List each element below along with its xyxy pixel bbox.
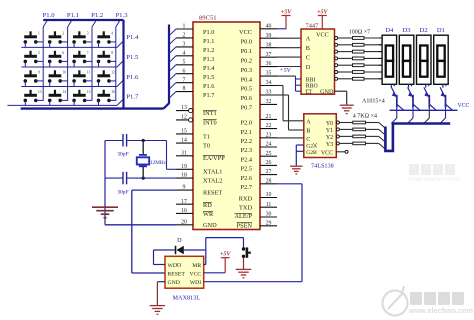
svg-text:P0.0: P0.0 bbox=[241, 38, 252, 45]
wire S14 right contact to column P1.1 bbox=[60, 99, 67, 101]
display D2 body bbox=[417, 35, 432, 84]
svg-text:P0.5: P0.5 bbox=[241, 86, 252, 93]
bubble output 6 (7447) bbox=[335, 77, 338, 80]
diode D bbox=[176, 246, 183, 254]
pin 14 (T0) stub left bbox=[176, 142, 193, 144]
resistor R10 4.7K bbox=[353, 135, 366, 138]
keypad pushbutton S15 bbox=[72, 90, 90, 102]
pin 6 (P1.5) stub left bbox=[176, 73, 193, 75]
bus entry slant R9 bbox=[379, 129, 385, 135]
display D4 digit segments bbox=[386, 46, 393, 77]
bus slant to pin 7 bbox=[169, 83, 176, 90]
svg-text:XTAL2: XTAL2 bbox=[203, 177, 222, 184]
svg-text:33: 33 bbox=[266, 90, 272, 96]
bus P1 vertical at MCU bbox=[168, 25, 170, 104]
svg-text:4: 4 bbox=[111, 32, 113, 36]
bus P1 bottom segment bbox=[21, 107, 164, 109]
resistor R3 100ohm bbox=[353, 50, 365, 53]
bus slant to pin 5 bbox=[169, 65, 176, 72]
svg-text:3: 3 bbox=[87, 32, 89, 36]
svg-text:P0.2: P0.2 bbox=[241, 57, 252, 64]
display D4 segment pin bbox=[379, 51, 383, 53]
svg-text:D2: D2 bbox=[420, 27, 428, 34]
pin 34 (P0.5) stub right bbox=[260, 85, 277, 87]
svg-text:22: 22 bbox=[266, 123, 272, 129]
svg-text:P1.5: P1.5 bbox=[203, 74, 214, 81]
wire G2A G2B to ground bbox=[296, 144, 304, 146]
pin 30 (ALE/P) stub right bbox=[260, 216, 277, 218]
wire S12 right contact to column P1.3 bbox=[109, 80, 116, 82]
svg-text:VCC: VCC bbox=[239, 29, 252, 36]
display D4 body bbox=[382, 35, 397, 84]
svg-text:30: 30 bbox=[266, 212, 272, 218]
svg-text:74LS138: 74LS138 bbox=[311, 163, 334, 170]
display D4 segment pin bbox=[379, 37, 383, 39]
svg-text:26: 26 bbox=[266, 160, 272, 166]
bus entry slant for column P1.1 bbox=[68, 20, 72, 27]
wire P0.6 to 74LS138 B bbox=[277, 94, 289, 96]
pin 17 (RD) stub left bbox=[176, 203, 193, 205]
wire button to ground bbox=[243, 258, 245, 269]
wire S7 right contact to column P1.2 bbox=[85, 60, 92, 62]
svg-text:2: 2 bbox=[183, 33, 186, 39]
svg-text:25: 25 bbox=[266, 151, 272, 157]
bubble output Y0 bbox=[336, 121, 339, 124]
svg-text:C: C bbox=[306, 55, 310, 62]
svg-text:+5V: +5V bbox=[281, 9, 292, 15]
display D2 digit segments bbox=[420, 46, 427, 77]
transistor Q3 A1015 bbox=[424, 87, 436, 110]
wire S4 right contact to column P1.3 bbox=[109, 41, 116, 43]
wire S2 left contact to row P1.4 bbox=[49, 42, 51, 48]
keypad pushbutton S12 bbox=[97, 70, 115, 82]
svg-text:13: 13 bbox=[38, 90, 42, 94]
svg-text:14: 14 bbox=[62, 90, 66, 94]
bus entry slant for row P1.7 bbox=[117, 99, 124, 106]
svg-text:VCC: VCC bbox=[316, 32, 329, 39]
bubble output 5 (7447) bbox=[335, 71, 338, 74]
svg-text:P1.7: P1.7 bbox=[126, 94, 139, 101]
keypad pushbutton S13 bbox=[24, 90, 42, 102]
bus P1 top segment bbox=[43, 19, 123, 21]
bubble output Y2 bbox=[336, 135, 339, 138]
bus P1 right vertical segment bbox=[122, 20, 124, 109]
svg-text:8: 8 bbox=[111, 51, 113, 55]
svg-text:P2.0: P2.0 bbox=[241, 120, 252, 127]
capacitor C1 30pF bbox=[122, 134, 124, 147]
keypad pushbutton S2 bbox=[48, 31, 65, 43]
wire GND pin20 to ground bbox=[105, 224, 176, 226]
decoder U2 7447 body bbox=[301, 29, 335, 94]
wire 74LS138 Y3 to resistor bbox=[340, 142, 353, 144]
svg-text:P1.0: P1.0 bbox=[43, 12, 56, 19]
bus entry slant for column P1.3 bbox=[116, 20, 120, 27]
wire resistor R9 to bus bbox=[366, 128, 379, 130]
wire keypad row P1.7 horizontal bbox=[7, 104, 117, 106]
svg-text:+5V: +5V bbox=[317, 9, 328, 15]
wire diode node up to reset button bbox=[205, 238, 207, 250]
svg-text:36: 36 bbox=[266, 61, 272, 67]
svg-text:39: 39 bbox=[266, 33, 272, 39]
display D4 segment pin bbox=[379, 44, 383, 46]
bus slant to pin 6 bbox=[169, 74, 176, 81]
wire S6 right contact to column P1.1 bbox=[60, 60, 67, 62]
svg-text:30pF: 30pF bbox=[117, 190, 129, 196]
svg-text:B: B bbox=[306, 128, 310, 135]
keypad pushbutton S10 bbox=[48, 70, 66, 82]
resistor R6 100ohm bbox=[353, 71, 365, 74]
pin 40 (VCC) stub right bbox=[260, 28, 277, 30]
wire resistor R8 to bus bbox=[366, 122, 379, 124]
keypad pushbutton S6 bbox=[48, 51, 65, 63]
svg-text:P1.6: P1.6 bbox=[126, 74, 139, 81]
bus slant to pin 2 bbox=[169, 38, 176, 45]
svg-text:P1.4: P1.4 bbox=[203, 65, 215, 72]
pin 24 (P2.3) stub right bbox=[260, 146, 277, 148]
keypad pushbutton S11 bbox=[72, 70, 90, 82]
svg-text:1: 1 bbox=[38, 32, 40, 36]
svg-text:P1.0: P1.0 bbox=[203, 29, 214, 36]
svg-text:18: 18 bbox=[181, 173, 187, 179]
display D3 bottom pin bbox=[408, 84, 410, 87]
svg-text:ALE/P: ALE/P bbox=[235, 213, 253, 220]
svg-text:1: 1 bbox=[183, 24, 186, 30]
svg-text:7: 7 bbox=[87, 51, 89, 55]
pin 29 (PSEN) stub right bbox=[260, 225, 277, 227]
wire S5 left contact to row P1.5 bbox=[24, 61, 26, 67]
wire keypad row P1.6 horizontal bbox=[21, 86, 117, 88]
transistor Q2 A1015 bbox=[408, 87, 420, 110]
display D4 segment pin bbox=[379, 71, 383, 73]
svg-text:28: 28 bbox=[266, 178, 272, 184]
svg-text:13: 13 bbox=[181, 105, 187, 111]
svg-text:Y2: Y2 bbox=[326, 135, 333, 141]
svg-text:A: A bbox=[306, 36, 311, 43]
svg-text:www.elecfans.com: www.elecfans.com bbox=[408, 306, 473, 315]
wire 74LS138 Y1 to resistor bbox=[340, 128, 353, 130]
pin 2 (P1.1) stub left bbox=[176, 37, 193, 39]
wire P0.3 to 7447 D bbox=[277, 66, 301, 68]
svg-text:D1: D1 bbox=[437, 27, 445, 34]
wire resistor R1 to display bbox=[364, 37, 382, 39]
display D3 body bbox=[399, 35, 414, 84]
wire GND (MAX) to ground bbox=[157, 281, 165, 283]
svg-text:2: 2 bbox=[62, 32, 64, 36]
bus entry slant R11 bbox=[379, 143, 385, 149]
wire S11 left contact to row P1.6 bbox=[73, 81, 75, 87]
svg-text:MAX813L: MAX813L bbox=[173, 295, 201, 302]
wire S4 left contact to row P1.4 bbox=[98, 42, 100, 48]
wire S7 left contact to row P1.5 bbox=[73, 61, 75, 67]
svg-text:P1.7: P1.7 bbox=[203, 92, 214, 99]
svg-text:+5V: +5V bbox=[220, 252, 231, 258]
svg-text:P1.1: P1.1 bbox=[67, 12, 79, 19]
svg-text:P1.6: P1.6 bbox=[203, 83, 214, 90]
junction crystal top bbox=[142, 139, 145, 142]
wire keypad row P1.4 horizontal bbox=[21, 46, 117, 48]
svg-text:15: 15 bbox=[181, 129, 187, 135]
wire resistor R4 to display bbox=[364, 57, 382, 59]
pin 37 (P0.2) stub right bbox=[260, 56, 277, 58]
wire P0.4 to 7447 RBI/RBO/LT bbox=[277, 75, 296, 77]
svg-text:5: 5 bbox=[38, 51, 40, 55]
keypad pushbutton S8 bbox=[97, 51, 114, 63]
svg-text:P2.5: P2.5 bbox=[241, 166, 252, 173]
wire VCC pin40 to +5V bbox=[277, 28, 286, 30]
keypad pushbutton S4 bbox=[97, 31, 114, 43]
bus slant to pin 4 bbox=[169, 56, 176, 63]
resistor R2 100ohm bbox=[353, 43, 365, 46]
svg-text:T0: T0 bbox=[203, 143, 210, 150]
svg-text:RXD: RXD bbox=[239, 196, 253, 203]
pin 36 (P0.3) stub right bbox=[260, 66, 277, 68]
bubble on pin 12 bbox=[189, 118, 193, 122]
svg-text:11: 11 bbox=[87, 71, 91, 75]
wire S6 left contact to row P1.5 bbox=[49, 61, 51, 67]
watermark logo and text bbox=[383, 286, 474, 316]
svg-text:12MHz: 12MHz bbox=[150, 160, 167, 166]
pin 26 (P2.5) stub right bbox=[260, 164, 277, 166]
pin 25 (P2.4) stub right bbox=[260, 155, 277, 157]
wire S9 right contact to column P1.0 bbox=[36, 80, 43, 82]
svg-text:17: 17 bbox=[181, 199, 187, 205]
pin 39 (P0.0) stub right bbox=[260, 37, 277, 39]
svg-text:A: A bbox=[306, 118, 311, 125]
svg-text:4 7KΩ ×4: 4 7KΩ ×4 bbox=[353, 114, 377, 120]
pin 15 (T1) stub left bbox=[176, 133, 193, 135]
wire 7447 output 5 to resistor bbox=[338, 71, 353, 73]
bubble output 4 (7447) bbox=[335, 64, 338, 67]
wire keypad column P1.2 vertical bbox=[91, 27, 93, 101]
wire WDO to diode bbox=[154, 264, 166, 266]
wire S15 left contact to row P1.7 bbox=[73, 100, 75, 105]
wire S13 left contact to row P1.7 bbox=[24, 100, 26, 105]
svg-text:P0.1: P0.1 bbox=[241, 48, 252, 55]
svg-text:34: 34 bbox=[266, 80, 272, 86]
wire S3 right contact to column P1.2 bbox=[85, 41, 92, 43]
wire S5 right contact to column P1.0 bbox=[36, 60, 43, 62]
wire S11 right contact to column P1.2 bbox=[85, 80, 92, 82]
bus entry slant for column P1.2 bbox=[92, 20, 96, 27]
wire 74LS138 Y2 to resistor bbox=[340, 135, 353, 137]
svg-text:LT: LT bbox=[306, 90, 313, 96]
pin 16 (WR) stub left bbox=[176, 212, 193, 214]
pin 13 (INT1) stub left bbox=[176, 110, 193, 112]
svg-text:P2.2: P2.2 bbox=[241, 138, 252, 145]
power +5V symbol (MAX) bbox=[221, 257, 230, 259]
pin 38 (P0.1) stub right bbox=[260, 47, 277, 49]
wire C2 left to ground rail bbox=[105, 177, 123, 179]
pin 10 (RXD) stub right bbox=[260, 197, 277, 199]
bus entry slant for row P1.6 bbox=[117, 80, 124, 87]
ground (reset button) bbox=[236, 268, 252, 270]
svg-text:C: C bbox=[306, 136, 310, 143]
pin 32 (P0.7) stub right bbox=[260, 103, 277, 105]
keypad pushbutton S9 bbox=[24, 70, 41, 82]
svg-text:P2.3: P2.3 bbox=[241, 147, 252, 154]
wire keypad column P1.3 vertical bbox=[115, 27, 117, 101]
resistor R11 4.7K bbox=[353, 142, 366, 145]
transistor Q1 A1015 bbox=[391, 87, 403, 110]
svg-text:23: 23 bbox=[266, 132, 272, 138]
bus entry slant for column P1.0 bbox=[43, 20, 47, 27]
wire S9 left contact to row P1.6 bbox=[24, 81, 26, 87]
svg-text:VCC: VCC bbox=[189, 271, 201, 277]
svg-text:89C51: 89C51 bbox=[199, 15, 217, 22]
supervisor U4 MAX813L body bbox=[165, 256, 204, 288]
wire RESET to MAX813L bbox=[132, 189, 176, 191]
svg-text:P2.1: P2.1 bbox=[241, 129, 252, 136]
svg-text:11: 11 bbox=[266, 202, 272, 208]
pin 33 (P0.6) stub right bbox=[260, 94, 277, 96]
svg-text:P1.2: P1.2 bbox=[91, 12, 103, 19]
wire S16 right contact to column P1.3 bbox=[109, 99, 116, 101]
display D1 digit segments bbox=[437, 46, 444, 77]
svg-text:D: D bbox=[306, 64, 311, 71]
display D1 body bbox=[434, 35, 449, 84]
svg-text:29: 29 bbox=[266, 220, 272, 226]
op-amp U1 89C51 microcontroller body bbox=[193, 22, 260, 230]
svg-text:D4: D4 bbox=[385, 27, 394, 34]
wire P0.5 to 74LS138 A bbox=[277, 85, 283, 87]
wire S14 left contact to row P1.7 bbox=[49, 100, 51, 105]
bus entry slant R8 bbox=[379, 123, 385, 129]
svg-text:24: 24 bbox=[266, 142, 272, 148]
wire S10 right contact to column P1.1 bbox=[60, 80, 67, 82]
svg-text:100Ω ×7: 100Ω ×7 bbox=[349, 30, 370, 36]
svg-text:12: 12 bbox=[111, 71, 115, 75]
svg-text:Y1: Y1 bbox=[326, 128, 333, 134]
svg-text:WDO: WDO bbox=[168, 263, 182, 269]
svg-text:+5V: +5V bbox=[280, 68, 292, 74]
wire S1 left contact to row P1.4 bbox=[24, 42, 26, 48]
bus slant to pin 8 bbox=[169, 92, 176, 99]
wire 7447 output 6 to resistor bbox=[338, 78, 353, 80]
svg-text:P1.4: P1.4 bbox=[126, 34, 139, 41]
pin 27 (P2.6) stub right bbox=[260, 174, 277, 176]
display D4 segment pin bbox=[379, 64, 383, 66]
svg-text:38: 38 bbox=[266, 42, 272, 48]
wire resistor R3 to display bbox=[364, 51, 382, 53]
svg-text:D: D bbox=[177, 237, 182, 244]
svg-text:www.elecfans.com: www.elecfans.com bbox=[408, 176, 460, 183]
power +5V symbol (MCU) bbox=[282, 15, 291, 17]
svg-text:WR: WR bbox=[203, 211, 214, 218]
keypad pushbutton S3 bbox=[72, 31, 89, 43]
bubble output Y1 bbox=[336, 128, 339, 131]
display D4 segment pin bbox=[379, 57, 383, 59]
svg-text:6: 6 bbox=[62, 51, 64, 55]
keypad pushbutton S5 bbox=[24, 51, 41, 63]
svg-text:10: 10 bbox=[266, 192, 272, 198]
wire S16 left contact to row P1.7 bbox=[98, 100, 100, 105]
svg-text:WDI: WDI bbox=[190, 280, 201, 286]
svg-text:VCC: VCC bbox=[458, 103, 470, 109]
svg-text:5: 5 bbox=[183, 59, 186, 65]
wire resistor R2 to display bbox=[364, 44, 382, 46]
svg-text:31: 31 bbox=[181, 150, 187, 156]
wire resistor R10 to bus bbox=[366, 135, 379, 137]
wire S12 left contact to row P1.6 bbox=[98, 81, 100, 87]
pin 8 (P1.7) stub left bbox=[176, 91, 193, 93]
pin 5 (P1.4) stub left bbox=[176, 64, 193, 66]
wire P2.7 to MAX813L WDI bbox=[277, 183, 302, 185]
bus entry slant R10 bbox=[379, 136, 385, 142]
wire Q1 base down to bus bbox=[396, 108, 398, 118]
pin 3 (P1.2) stub left bbox=[176, 46, 193, 48]
decoder U3 74LS138 body bbox=[304, 114, 337, 158]
svg-text:P0.6: P0.6 bbox=[241, 95, 252, 102]
wire S1 right contact to column P1.0 bbox=[36, 41, 43, 43]
wire keypad column P1.0 vertical bbox=[42, 27, 44, 101]
wire C1 left to ground rail bbox=[105, 140, 123, 142]
pin 35 (P0.4) stub right bbox=[260, 75, 277, 77]
pin 19 (XTAL1) stub left bbox=[176, 168, 193, 170]
svg-text:6: 6 bbox=[183, 68, 186, 74]
wire P0.1 to 7447 B bbox=[277, 47, 301, 49]
svg-text:P2.4: P2.4 bbox=[241, 156, 253, 163]
svg-text:GND: GND bbox=[203, 222, 217, 229]
svg-text:D3: D3 bbox=[402, 27, 411, 34]
svg-text:35: 35 bbox=[266, 71, 272, 77]
svg-text:INT1: INT1 bbox=[203, 110, 217, 117]
wire 7447 output 0 to resistor bbox=[338, 37, 353, 39]
svg-text:P1.2: P1.2 bbox=[203, 47, 214, 54]
wire VCC (MAX) to +5V bbox=[204, 272, 226, 274]
svg-text:P1.1: P1.1 bbox=[203, 38, 214, 45]
svg-text:G2B: G2B bbox=[306, 150, 317, 156]
pin 20 (GND) stub left bbox=[176, 224, 193, 226]
ground (MAX813L) bbox=[150, 305, 166, 307]
pin 12 (INT0) stub left bbox=[176, 119, 193, 121]
svg-text:RESET: RESET bbox=[203, 189, 222, 196]
svg-text:32: 32 bbox=[266, 99, 272, 105]
pin 23 (P2.2) stub right bbox=[260, 137, 277, 139]
svg-text:TXD: TXD bbox=[239, 205, 252, 212]
pin 18 (XTAL2) stub left bbox=[176, 177, 193, 179]
bus slant to pin 1 bbox=[169, 29, 176, 36]
svg-text:37: 37 bbox=[266, 52, 272, 58]
wire 7447 output 4 to resistor bbox=[338, 64, 353, 66]
keypad pushbutton S7 bbox=[72, 51, 89, 63]
svg-text:9: 9 bbox=[183, 185, 186, 191]
display D2 bottom pin bbox=[425, 84, 427, 87]
pin 31 (EA/VPP) stub left bbox=[176, 155, 193, 157]
bubble output 1 (7447) bbox=[335, 43, 338, 46]
wire 74LS138 Y0 to resistor bbox=[340, 122, 353, 124]
wire keypad row P1.5 horizontal bbox=[21, 66, 117, 68]
wire S13 right contact to column P1.0 bbox=[36, 99, 43, 101]
wire ground rail vertical bbox=[104, 141, 106, 225]
svg-text:EA/VPP: EA/VPP bbox=[203, 155, 225, 162]
bus entry slant for row P1.4 bbox=[117, 41, 124, 48]
svg-text:Y3: Y3 bbox=[326, 142, 333, 148]
svg-text:B: B bbox=[306, 45, 310, 52]
bus base-drive U segment bbox=[385, 124, 450, 151]
svg-text:T1: T1 bbox=[203, 133, 210, 140]
svg-text:8: 8 bbox=[183, 86, 186, 92]
ground (crystal) bbox=[92, 206, 118, 208]
svg-text:P2.6: P2.6 bbox=[241, 175, 252, 182]
pin VCC (7447) stub bbox=[321, 16, 323, 29]
ground (74LS138) bbox=[290, 165, 303, 167]
bubble output 2 (7447) bbox=[335, 50, 338, 53]
svg-text:19: 19 bbox=[181, 164, 187, 170]
wire S8 left contact to row P1.5 bbox=[98, 61, 100, 67]
wire Q2 base down to bus bbox=[412, 108, 414, 118]
wire 7447 output 1 to resistor bbox=[338, 44, 353, 46]
wire resistor R5 to display bbox=[364, 64, 382, 66]
